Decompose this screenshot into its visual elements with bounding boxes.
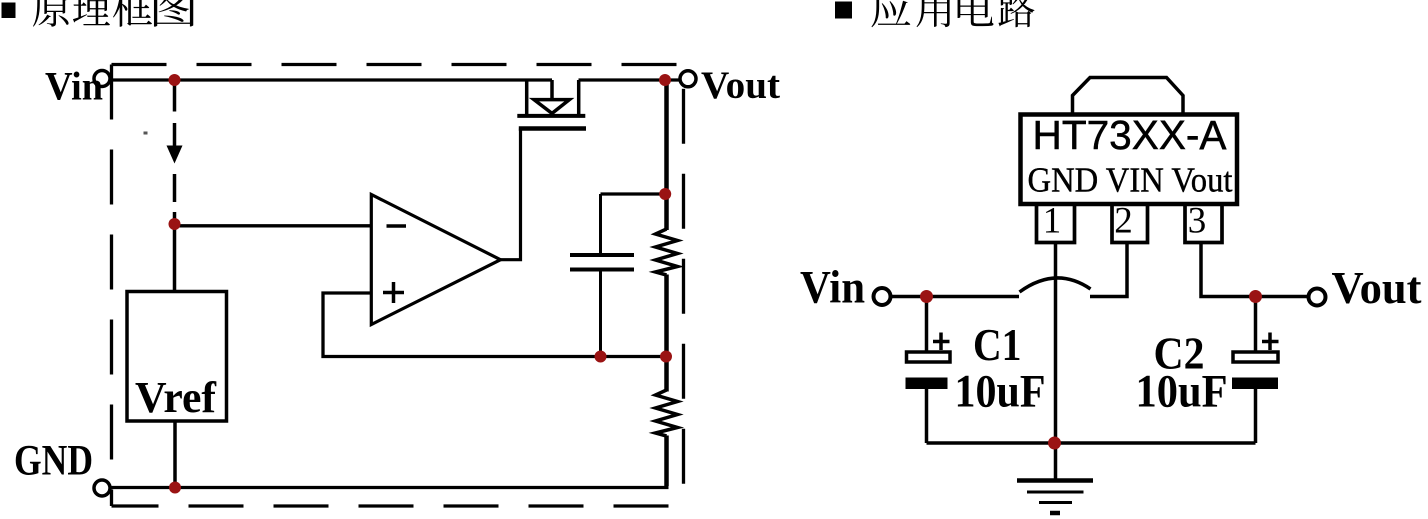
svg-text:1: 1 <box>1043 201 1062 242</box>
svg-text:Vin: Vin <box>45 64 103 109</box>
svg-text:Vout: Vout <box>701 64 780 107</box>
svg-text:C1: C1 <box>973 319 1022 370</box>
svg-text:10uF: 10uF <box>1136 367 1228 418</box>
svg-text:3: 3 <box>1188 201 1207 242</box>
svg-text:Vout: Vout <box>1332 262 1423 313</box>
svg-text:2: 2 <box>1114 201 1133 242</box>
svg-text:GND: GND <box>14 438 93 485</box>
svg-text:Vref: Vref <box>135 373 217 422</box>
svg-text:Vin: Vin <box>800 262 865 314</box>
svg-text:HT73XX-A: HT73XX-A <box>1033 112 1227 158</box>
svg-text:10uF: 10uF <box>955 367 1046 418</box>
svg-text:GND VIN Vout: GND VIN Vout <box>1028 161 1233 200</box>
